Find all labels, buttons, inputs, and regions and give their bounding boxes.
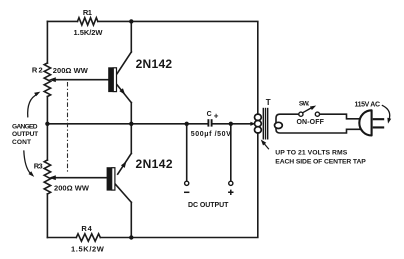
curved arrow: ganged control bottom — [24, 150, 31, 173]
wire: Q1 collector diagonal — [117, 52, 131, 74]
wire: R2 wiper to Q1 base — [52, 79, 108, 81]
wire: DC output minus drop — [186, 124, 188, 181]
svg-text:C: C — [207, 111, 212, 118]
wire: Q1 emitter vertical to mid rail — [130, 103, 132, 124]
wire: Q2 collector vertical to bottom rail — [130, 202, 132, 237]
svg-text:SW.: SW. — [299, 101, 310, 108]
svg-text:CONT: CONT — [12, 139, 31, 146]
arrowhead: switch arm — [310, 106, 316, 111]
svg-text:T: T — [266, 98, 271, 107]
wire: secondary bottom lead to plug — [276, 128, 360, 133]
transformer core lines — [263, 108, 267, 140]
svg-text:2N142: 2N142 — [136, 157, 173, 171]
transistor Q1 base bar — [108, 67, 116, 92]
svg-text:115V AC: 115V AC — [355, 101, 381, 108]
svg-text:R2: R2 — [32, 65, 43, 74]
svg-text:OUTPUT: OUTPUT — [12, 131, 38, 138]
node: bottom rail / Q2 collector junction — [129, 235, 133, 239]
switch arm — [303, 108, 313, 113]
node: mid rail / emitters junction — [129, 122, 133, 126]
wire: switch to plug top lead — [320, 114, 361, 119]
svg-text:GANGED: GANGED — [12, 123, 38, 130]
node: left rail / mid rail junction — [45, 122, 49, 126]
polarity plus sign — [228, 190, 233, 195]
switch SW contact circles — [299, 112, 303, 116]
wire: left rail bottom (R3 to bottom rail) — [46, 194, 48, 238]
svg-text:R1: R1 — [83, 8, 92, 17]
curved arrow at plug — [382, 105, 390, 120]
svg-text:1.5K/2W: 1.5K/2W — [71, 245, 105, 254]
wire: top rail left segment — [47, 20, 77, 22]
svg-text:ON-OFF: ON-OFF — [297, 119, 325, 126]
transformer center tap arrowhead — [250, 122, 255, 126]
wire: top rail right segment + right vertical down to transformer — [98, 21, 258, 114]
capacitor C plates — [208, 119, 211, 126]
arrowhead: Q1 emitter — [119, 88, 125, 95]
curved arrow: ganged control top — [28, 94, 38, 117]
node: top rail / Q1 collector junction — [129, 19, 133, 23]
wire: Q1 emitter diagonal — [117, 85, 131, 103]
transformer secondary loop — [275, 122, 283, 128]
wire: bottom rail left segment — [47, 237, 76, 239]
arrowhead: R3 wiper — [49, 175, 56, 180]
transformer T primary winding loops — [255, 114, 262, 133]
resistor R1 — [78, 18, 98, 25]
wire: DC output plus drop — [230, 124, 232, 181]
svg-text:EACH SIDE OF CENTER TAP: EACH SIDE OF CENTER TAP — [275, 158, 366, 165]
node: mid rail / DC minus junction — [185, 122, 189, 126]
wire: mid rail (left rail to capacitor) — [47, 123, 207, 125]
transistor Q2 base bar — [107, 167, 115, 190]
svg-text:500μf /50V: 500μf /50V — [191, 131, 231, 138]
wire: left rail middle (R2 bottom to R3 top) — [46, 97, 48, 161]
wire: Q2 emitter diagonal — [118, 153, 132, 174]
wire: Q1 collector vertical — [130, 21, 132, 52]
potentiometer R3 — [44, 160, 50, 194]
svg-text:2N142: 2N142 — [136, 57, 173, 71]
arrow: transformer secondary note — [263, 142, 269, 149]
node: mid rail / DC plus junction — [229, 122, 233, 126]
ganging dash-dot link line — [67, 82, 69, 174]
wire: R3 wiper to Q2 base — [52, 177, 107, 179]
wire: Q2 emitter vertical from mid rail — [130, 124, 132, 154]
svg-text:200Ω WW: 200Ω WW — [53, 66, 89, 75]
polarity minus sign — [184, 191, 189, 193]
arrowhead: Q2 emitter — [121, 161, 126, 168]
wire: capacitor to transformer center tap — [212, 123, 251, 125]
svg-text:+: + — [214, 112, 219, 121]
wire: Q2 collector diagonal — [115, 184, 131, 203]
wire: secondary top lead to switch — [276, 114, 299, 123]
svg-text:R4: R4 — [81, 224, 92, 233]
wire: left rail top (top rail to R2) — [46, 21, 48, 63]
plug prongs — [373, 119, 385, 127]
arrowhead: R2 wiper — [49, 77, 56, 82]
svg-text:1.5K/2W: 1.5K/2W — [74, 28, 104, 37]
resistor R4 — [76, 234, 100, 241]
svg-text:200Ω WW: 200Ω WW — [54, 183, 90, 192]
svg-text:R3: R3 — [34, 161, 43, 170]
svg-text:UP TO 21 VOLTS RMS: UP TO 21 VOLTS RMS — [275, 149, 347, 156]
terminal: DC output minus — [185, 181, 189, 185]
potentiometer R2 — [44, 63, 50, 97]
terminal: DC output plus — [229, 181, 233, 185]
svg-text:DC OUTPUT: DC OUTPUT — [188, 202, 229, 209]
wire: bottom rail right segment + right vertical up to transformer — [100, 133, 257, 238]
plug body — [359, 110, 371, 135]
